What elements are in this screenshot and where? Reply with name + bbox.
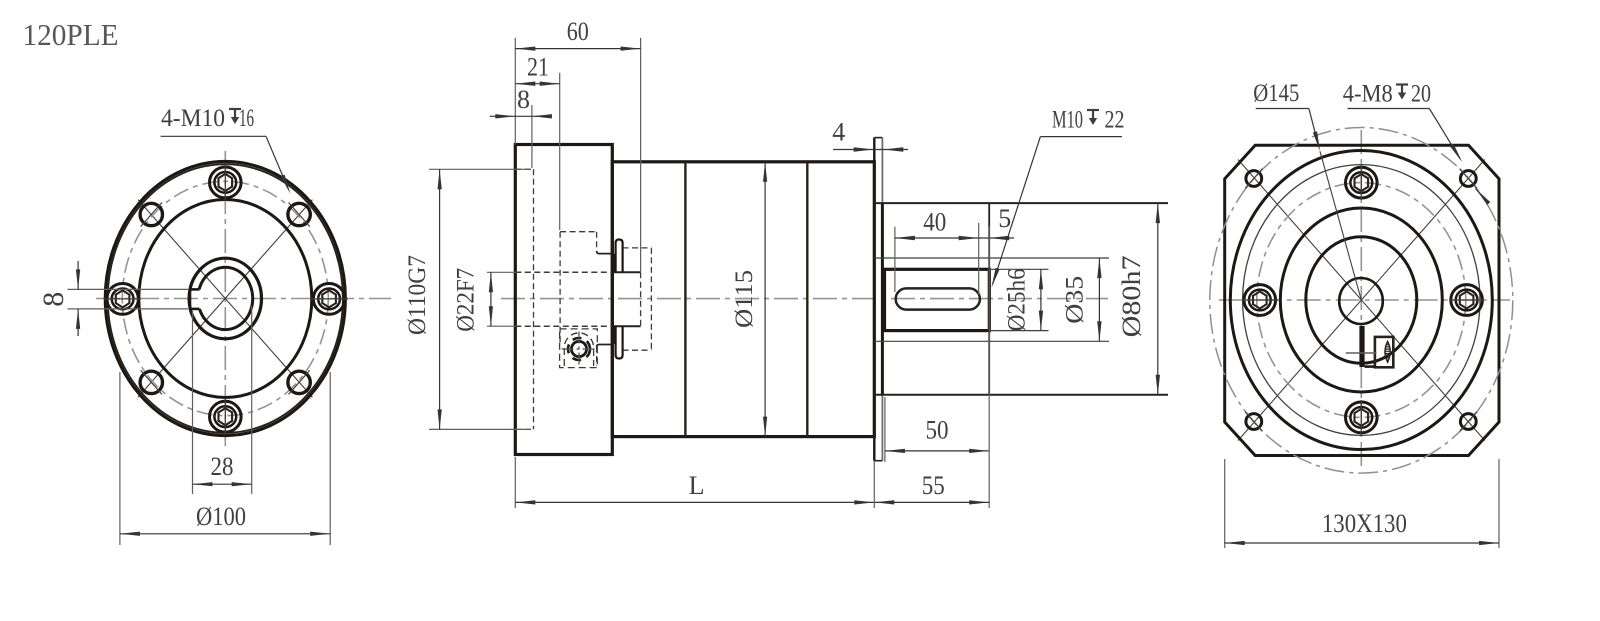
body joint line 2: [806, 162, 808, 437]
dim D100 dimension line: [120, 532, 330, 536]
dim 8mid dimension line: [490, 114, 552, 118]
dim 60 dimension line: [515, 47, 640, 51]
left view vertical centerline: [224, 151, 226, 446]
corner hole second arrow: [1476, 189, 1491, 205]
svg-text:Ø22F7: Ø22F7: [453, 268, 480, 332]
dim 60 text: [567, 17, 589, 46]
label 4-M8 leader: [1348, 109, 1463, 163]
left view outer flange circle: [105, 162, 345, 436]
square mounting flange 130x130: [1225, 145, 1499, 455]
input bore D35 bottom line: [874, 340, 1109, 342]
dim 28 extension lines: [193, 306, 252, 494]
dim L dimension line: [515, 500, 874, 504]
dim 8 extension lines: [68, 289, 189, 309]
locating pin upper: [612, 240, 623, 273]
hidden coupling step lower: [597, 345, 612, 367]
left view shaft bore circle: [199, 267, 253, 329]
dim 50 dimension line: [885, 449, 989, 453]
right view diagonal NW-SE: [1238, 160, 1485, 441]
svg-text:21: 21: [527, 53, 549, 82]
svg-text:M10: M10: [1052, 107, 1083, 134]
bolt hole S with hex socket: [210, 398, 242, 435]
middle view axis centerline: [501, 298, 1108, 300]
svg-text:16: 16: [239, 105, 254, 132]
diagonal bolt hole SE: [288, 370, 310, 394]
hidden bore D22 lines: [515, 272, 640, 326]
dim 4 text: [832, 118, 845, 147]
left view shaft outer circle: [189, 258, 261, 339]
dim 55 dimension line: [874, 500, 989, 504]
bolt hole W with hex socket: [104, 284, 141, 315]
svg-text:Ø145: Ø145: [1253, 80, 1299, 107]
label D145 leader: [1256, 109, 1362, 301]
svg-text:4: 4: [832, 118, 845, 147]
label M10 depth22 text: [1052, 107, 1125, 134]
bolt hole E with hex socket: [310, 284, 348, 315]
svg-text:Ø35: Ø35: [1062, 276, 1089, 324]
svg-text:8: 8: [517, 85, 530, 114]
dim 21 extension line: [559, 73, 561, 230]
right mid boss circle: [1280, 208, 1442, 392]
svg-text:20: 20: [1411, 81, 1431, 108]
left view diagonal centerline NW-SE: [138, 200, 312, 398]
corner hole NE: [1460, 169, 1477, 189]
dim D22F7 dimension line: [489, 272, 493, 326]
dim 130X130 text: [1322, 509, 1407, 538]
rear housing top edge: [874, 202, 1168, 204]
svg-text:L: L: [689, 471, 705, 500]
right view diagonal NE-SW: [1238, 160, 1485, 441]
right inner boss circle: [1306, 237, 1417, 364]
label D145 text: [1253, 80, 1299, 107]
dim 8mid text: [517, 85, 530, 114]
plate extension line down: [873, 461, 875, 508]
dim 8 text: [37, 292, 70, 307]
left view inner body circle: [139, 200, 312, 398]
right corner-hole circle centerline: [1210, 127, 1513, 473]
output flange block: [515, 145, 612, 455]
left view bolt circle centerline: [122, 181, 328, 415]
clamp screw circle: [562, 332, 597, 368]
gearbox body outline: [612, 162, 874, 437]
dim 4 dimension line: [833, 147, 908, 151]
svg-text:50: 50: [926, 416, 949, 445]
title 120PLE: [23, 17, 119, 52]
corner hole NW: [1245, 169, 1262, 189]
svg-text:55: 55: [922, 471, 945, 500]
dim 5 dimension line: [979, 236, 1014, 240]
dim 28 dimension line: [193, 482, 252, 486]
dim 21 dimension line: [515, 82, 559, 86]
dim L extension line: [514, 457, 516, 508]
hidden coupling step upper: [560, 232, 611, 345]
svg-text:4-M8: 4-M8: [1343, 81, 1393, 108]
dim D22F7 extension lines: [487, 272, 516, 326]
dim 55 extension line: [988, 226, 990, 508]
svg-text:5: 5: [998, 204, 1011, 233]
right bolt E: [1449, 285, 1484, 316]
svg-text:40: 40: [923, 207, 946, 236]
svg-text:Ø110G7: Ø110G7: [404, 255, 431, 335]
svg-text:Ø115: Ø115: [731, 270, 758, 328]
corner hole SE: [1460, 412, 1477, 432]
right big circle D145: [1230, 151, 1492, 450]
svg-text:Ø80h7: Ø80h7: [1117, 255, 1146, 337]
locating pin lower: [612, 326, 623, 359]
label M10 leader: [992, 137, 1122, 288]
svg-text:8: 8: [37, 292, 70, 307]
dim D115 dimension line: [763, 162, 767, 437]
input bore D35 top line: [874, 257, 1109, 259]
key hatched section: [1381, 342, 1394, 363]
key cross-section box: [1375, 337, 1393, 367]
bolt hole N with hex socket: [210, 164, 242, 201]
dim D115 text: [731, 270, 758, 328]
rear housing right edge: [988, 203, 990, 395]
svg-text:28: 28: [211, 452, 234, 481]
input keyway slot: [896, 288, 980, 309]
diagonal bolt hole NW: [140, 203, 162, 227]
label 4-M10 depth16 text: [161, 105, 254, 132]
dim 60 extension lines: [515, 38, 640, 272]
key horizontal line: [1346, 352, 1377, 354]
left view keyway slot: [189, 288, 199, 310]
dim D80h7 text: [1117, 255, 1146, 337]
dim 50 text: [926, 416, 949, 445]
dim 55 text: [922, 471, 945, 500]
right thin circle: [1243, 165, 1480, 436]
clamp screw hidden counterbore box: [560, 329, 598, 368]
dim L text: [689, 471, 705, 500]
left view horizontal centerline: [96, 298, 391, 300]
right center bore circle: [1339, 278, 1383, 324]
right bolt N: [1346, 165, 1378, 200]
dim D25h6 text: [1004, 268, 1031, 331]
label 4-M10 leader: [161, 136, 291, 194]
dim D100 text: [196, 502, 246, 531]
hidden sun pinion dashed box: [623, 248, 652, 350]
dim D110G7 text: [404, 255, 431, 335]
dim D35 text: [1062, 276, 1089, 324]
label 4-M8 depth20 text: [1343, 81, 1431, 108]
dim D80h7 dimension line: [1156, 203, 1160, 395]
clamp screw hidden arch: [564, 333, 593, 366]
dim 28 text: [211, 452, 234, 481]
svg-text:22: 22: [1105, 107, 1125, 134]
dim D22F7 text: [453, 268, 480, 332]
dim 8mid extension line: [531, 105, 533, 168]
corner hole SW: [1245, 412, 1262, 432]
rear housing left edge: [881, 203, 884, 395]
dim 40 dimension line: [895, 236, 979, 240]
svg-text:4-M10: 4-M10: [161, 105, 225, 132]
rear housing bottom edge: [874, 394, 1168, 396]
hidden D110 recess outline: [515, 169, 533, 429]
svg-text:60: 60: [567, 17, 589, 46]
diagonal bolt hole NE: [288, 203, 310, 227]
rear square plate edge-on: [874, 138, 882, 461]
dim D35 dimension line: [1097, 258, 1101, 341]
right bolt circle centerline: [1257, 183, 1466, 418]
right bolt W: [1242, 285, 1278, 316]
left view outer rabbet circle: [108, 164, 343, 433]
body joint line 1: [684, 162, 686, 437]
svg-text:Ø25h6: Ø25h6: [1004, 268, 1031, 331]
dim 5 text: [998, 204, 1011, 233]
dim 21 text: [527, 53, 549, 82]
diagonal bolt hole SW: [140, 370, 162, 394]
right view horizontal centerline: [1219, 299, 1510, 301]
dim 130X130 dimension line: [1225, 541, 1499, 545]
dim D25h6 dimension line: [1039, 269, 1043, 330]
dim 8 dimension line: [76, 261, 80, 336]
svg-text:130X130: 130X130: [1322, 509, 1407, 538]
dim D100 extension lines: [120, 372, 330, 545]
right view vertical centerline: [1360, 130, 1362, 470]
input bore D25h6 extension right: [989, 269, 1048, 330]
dim 40 extension lines: [895, 223, 979, 295]
svg-text:120PLE: 120PLE: [23, 17, 119, 52]
dim 130X130 extension lines: [1225, 459, 1499, 548]
dim D110G7 dimension line: [438, 169, 442, 429]
key slot bar: [1359, 326, 1375, 367]
input bore D25h6 outline: [885, 269, 990, 330]
right bolt S: [1346, 400, 1378, 435]
dim D110G7 extension lines: [429, 169, 531, 429]
dim 40 text: [923, 207, 946, 236]
left view diagonal centerline NE-SW: [138, 200, 312, 398]
svg-text:Ø100: Ø100: [196, 502, 246, 531]
dim 50 extension line: [884, 397, 886, 462]
